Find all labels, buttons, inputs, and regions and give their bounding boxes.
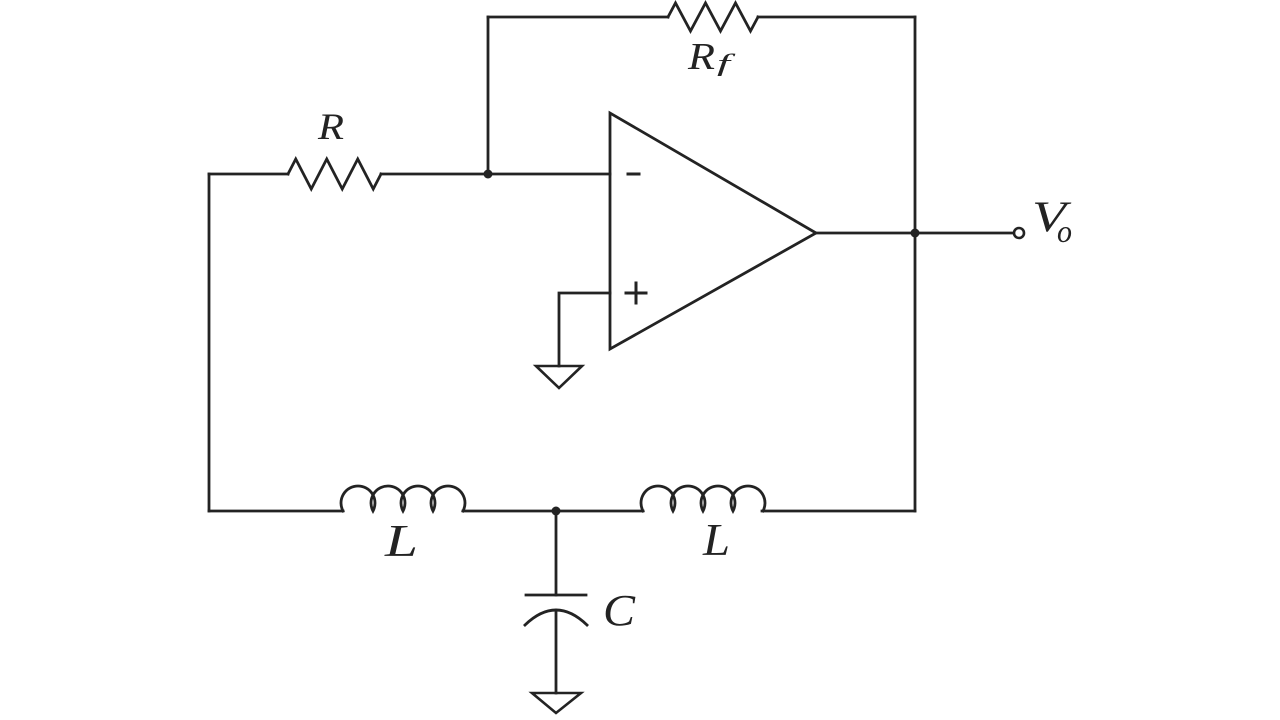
svg-text:R: R — [687, 36, 715, 78]
node junction at inverting input branch — [484, 170, 493, 179]
inductor L left — [341, 486, 465, 511]
node junction at output — [911, 229, 920, 238]
wire left vertical — [208, 174, 211, 511]
wire Rf to right vertical — [758, 16, 915, 19]
svg-text:L: L — [384, 516, 418, 566]
node junction at LC center — [552, 507, 561, 516]
wire capacitor to ground — [555, 611, 558, 693]
svg-text:C: C — [603, 586, 636, 635]
op-amp plus label — [626, 283, 646, 303]
wire noninverting input — [559, 293, 610, 366]
terminal Vo open circle — [1014, 228, 1024, 238]
svg-text:R: R — [317, 107, 344, 148]
wire right L to right vertical — [762, 510, 915, 513]
wire top horizontal to Rf — [488, 16, 668, 19]
wire vertical feedback branch — [487, 17, 490, 174]
wire bottom-left horizontal — [209, 510, 343, 513]
op-amp U1 — [610, 113, 816, 349]
wire R to op-amp inverting input — [381, 173, 610, 176]
svg-text:o: o — [1057, 213, 1072, 249]
wire between left L and center node — [463, 510, 643, 513]
op-amp minus label — [628, 173, 639, 176]
inductor L right — [641, 486, 765, 511]
wire right vertical — [914, 17, 917, 511]
capacitor C top plate — [526, 594, 586, 597]
ground at capacitor — [532, 693, 581, 713]
ground at noninverting input — [536, 366, 582, 388]
svg-text:f: f — [717, 51, 736, 77]
resistor R — [288, 159, 381, 189]
wire op-amp output — [816, 232, 1012, 235]
wire top-left horizontal to R — [209, 173, 288, 176]
resistor Rf — [668, 3, 758, 31]
svg-text:L: L — [702, 515, 730, 565]
wire center node down to capacitor — [555, 511, 558, 595]
capacitor C curved plate — [525, 610, 587, 625]
